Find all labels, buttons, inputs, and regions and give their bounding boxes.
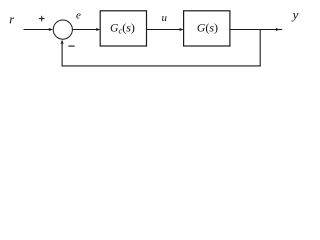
svg-text:y: y [291,7,299,22]
svg-text:r: r [9,13,14,27]
svg-text:e: e [76,10,81,22]
svg-text:u: u [162,12,168,24]
svg-text:Gc(s): Gc(s) [110,21,135,36]
svg-text:G(s): G(s) [197,21,218,35]
